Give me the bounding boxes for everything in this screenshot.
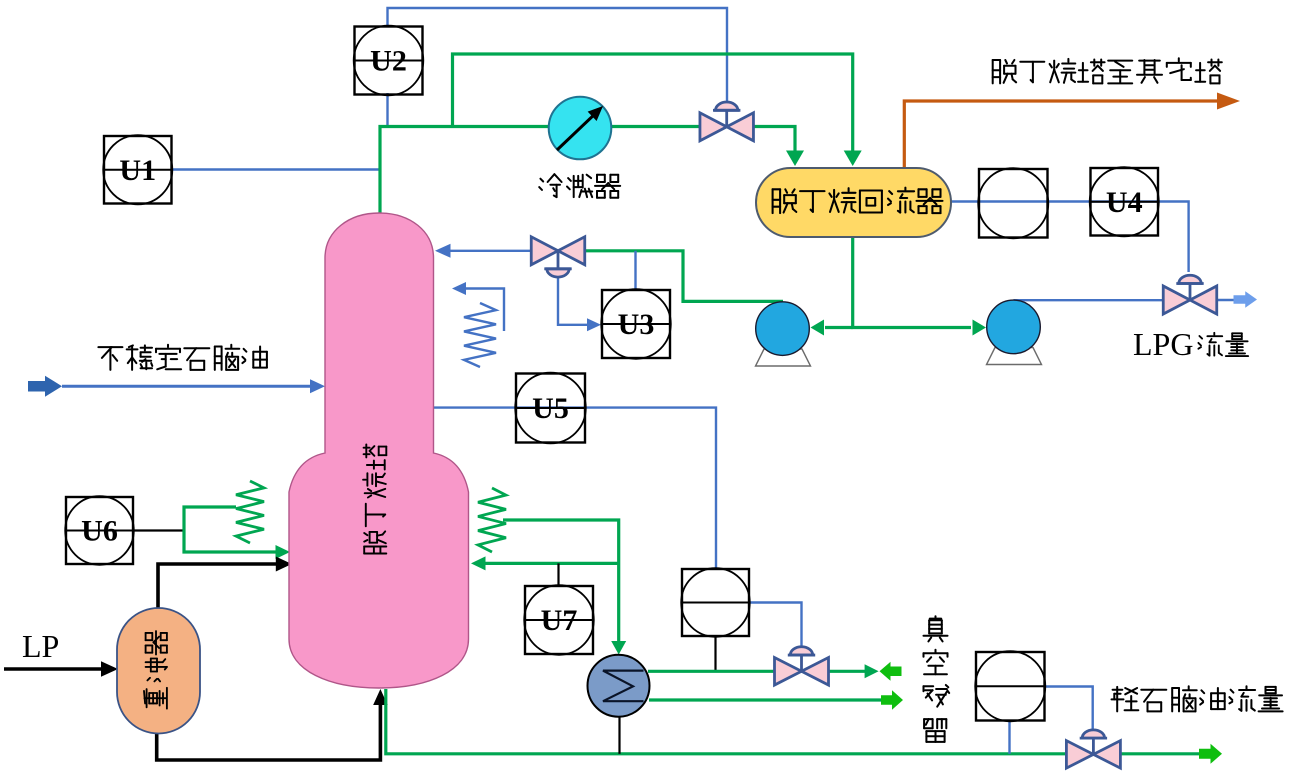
coil (blue spring) [464, 303, 496, 367]
block arrow LPG outlet [1234, 291, 1258, 308]
label 轻石脑油流量 [1113, 689, 1123, 691]
wire green U7 coil upper line [503, 520, 619, 643]
wire green drum bottoms to pumps tee [851, 237, 854, 328]
wire U7 top stub (black) [557, 563, 559, 586]
valve V1 (overhead control valve) [700, 102, 754, 141]
coil (green spring, U7) [478, 488, 506, 552]
wire unstable naphtha feed line [62, 385, 312, 388]
wire column to U5 to level instrument [434, 408, 717, 569]
instrument U3 [601, 289, 671, 359]
wire green riser from column top [380, 127, 795, 214]
label 冷凝器 [540, 179, 543, 182]
block arrow vacuum residue inlet (points left) [880, 662, 902, 681]
wire blue drum to LPG valve V2 [951, 202, 1189, 273]
wire exchanger outlet line 2 [649, 698, 882, 701]
wire brown line drum to other towers [904, 101, 1219, 168]
label 脱丁烷塔至其它塔 [992, 60, 994, 83]
wire blue spring line with arrow at column [464, 289, 504, 332]
wire exchanger bottom stub to bottoms line [618, 715, 620, 754]
wire tee to pump P1 [825, 326, 853, 329]
wire instrument FI-C bottom stub [1008, 721, 1010, 754]
label 脱丁烷塔 (rotated) [364, 553, 386, 555]
label 不稳定石脑油 [98, 346, 122, 348]
instrument U2 [354, 26, 424, 96]
wire valve V3 dome to U3 [558, 277, 588, 325]
label 脱丁烷回流器 [772, 189, 774, 213]
wire exchanger outlet line 1 [648, 670, 866, 673]
instrument U7 [524, 585, 594, 655]
instrument U6 [65, 496, 134, 565]
svg-text:U2: U2 [370, 45, 407, 78]
valve V5 (light naphtha valve) [1066, 730, 1120, 768]
wire instrument FI-B bottom stub (black) [714, 635, 716, 671]
arrowhead brown to other towers [1217, 93, 1240, 110]
coil (green spring, U6) [236, 481, 264, 543]
pump P1 [756, 349, 811, 366]
svg-text:U1: U1 [119, 154, 156, 187]
wire instrument FI-B to valve V4 dome [749, 603, 802, 649]
heat exchanger E1 [588, 655, 650, 717]
block arrow unstable naphtha inlet [28, 376, 62, 397]
instrument FI-B (blank) [681, 568, 750, 637]
wire green U6 bracket to coil and column [184, 507, 277, 552]
svg-text:LP: LP [22, 628, 59, 664]
wire U3 top stub [634, 251, 636, 290]
column T1 脱丁烷塔 (debutanizer tower) [289, 213, 469, 688]
svg-text:U7: U7 [541, 604, 578, 637]
svg-text:LPG: LPG [1133, 326, 1193, 362]
wire LP steam inlet [4, 667, 101, 671]
label 重沸器 (rotated) [144, 691, 145, 704]
instrument U1 [103, 135, 172, 204]
valve V3 (reflux valve, dome below) [531, 237, 585, 277]
arrow into reflux drum (right) [844, 151, 862, 167]
reflux drum 脱丁烷回流器 [756, 168, 951, 237]
wire valve V2 outlet to LPG arrow [1216, 299, 1236, 301]
wire green bottoms product line [386, 689, 1200, 754]
wire black reboiler return to column [158, 564, 277, 608]
wire U2 signal top loop to valve V1 [388, 8, 728, 106]
valve V2 (LPG flow valve) [1163, 275, 1217, 314]
instrument U5 [515, 373, 586, 444]
block arrow light naphtha outlet [1199, 744, 1222, 764]
wire U1 signal line [171, 168, 379, 170]
wire instrument FI-C to valve V5 dome [1044, 687, 1093, 731]
wire green return to column with arrow [484, 562, 619, 565]
instrument FI-C (blank) [975, 651, 1045, 721]
wire U2 bottom stub [386, 93, 388, 128]
wire pump P2 outlet to valve V2 [1014, 299, 1164, 301]
wire green overhead upper line [453, 54, 853, 154]
wire valve V3 to pump P1 top (green) [585, 251, 784, 302]
wire reflux line: column arrow to valve V3 [449, 250, 532, 252]
svg-text:U3: U3 [618, 308, 655, 341]
label 真空残留 (vertical) [934, 616, 936, 619]
wire U6 black stub [133, 529, 184, 531]
svg-text:U6: U6 [81, 515, 118, 548]
block arrow vacuum residue outlet [881, 690, 903, 710]
condenser 冷凝器 [549, 97, 612, 160]
instrument FI-A (blank) [978, 168, 1048, 238]
valve V4 (vacuum residue valve) [775, 647, 829, 685]
svg-text:U5: U5 [532, 392, 569, 425]
wire reboiler bottom loop to column base [157, 704, 381, 760]
instrument U4 [1090, 167, 1159, 236]
svg-text:U4: U4 [1106, 186, 1143, 219]
reboiler 重沸器 [117, 608, 200, 734]
arrow into reflux drum (left) [786, 151, 804, 167]
pump P2 [987, 348, 1042, 365]
wire tee to pump P2 [851, 326, 971, 329]
